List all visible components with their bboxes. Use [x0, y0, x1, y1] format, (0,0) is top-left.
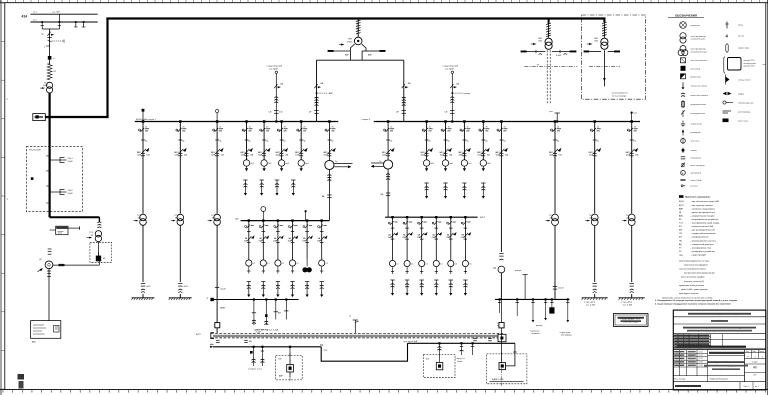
dashed box DB6 cabinet	[424, 354, 456, 377]
dash-dot fence line through T2 bay	[524, 65, 577, 67]
drawout stub S1L-2	[260, 179, 264, 181]
wire T02 to rectifier	[97, 242, 99, 256]
legend symbol contactor filled	[681, 66, 686, 71]
feeder 3R-3 wire	[421, 217, 423, 260]
terminal dot on DB1 left edge	[31, 177, 34, 180]
transformer T1R-2	[591, 214, 598, 221]
svg-text:АВР: АВР	[329, 92, 334, 95]
thick tap to transformer T2	[548, 19, 550, 24]
svg-text:25: 25	[486, 126, 488, 128]
thick loop bottom wire y=117	[39, 116, 109, 118]
section feeder wire upper	[328, 122, 330, 161]
ATS component in DB5	[499, 363, 506, 370]
feeder 1L-m3 wire	[281, 122, 283, 160]
arrow left on T3 LV lead	[587, 51, 601, 53]
feeder 1R-t3 breaker cluster	[630, 120, 633, 123]
PT stub above bus 2L	[262, 211, 264, 220]
svg-text:сущ: сущ	[324, 350, 328, 352]
svg-text:щит станц.: щит станц.	[738, 121, 749, 123]
legend symbol link	[681, 156, 686, 158]
svg-text:Лист 1: Лист 1	[744, 386, 751, 388]
feeder 1R-t3 termination marks	[630, 283, 634, 285]
svg-text:ввод: ввод	[738, 25, 743, 27]
motor M3R-4	[433, 260, 439, 266]
svg-text:25: 25	[303, 126, 305, 128]
svg-text:Принятые сокращения:: Принятые сокращения:	[685, 197, 711, 199]
feeder 2L-1 cluster	[248, 219, 250, 221]
motor M3R-3	[419, 260, 425, 266]
stub with instrument above bus 1L at x=217	[216, 113, 218, 122]
motor M2L-1	[246, 260, 252, 266]
disconnector stack above T2	[548, 23, 550, 37]
connector marks on right segment x=490	[488, 338, 492, 340]
feeder 1L-1 transformer	[140, 214, 147, 221]
tee stub above bus 4R	[524, 275, 526, 300]
svg-text:к существующей: к существующей	[443, 65, 458, 68]
labelled reserve stub at x=276	[275, 74, 277, 122]
svg-text:- трансформатор сухой защищ.: - трансформатор сухой защищ.	[691, 222, 721, 225]
svg-text:при рабочем проектировании (: при рабочем проектировании (2)	[684, 273, 715, 275]
drawout stub S1L-4	[291, 179, 295, 181]
feeder 1L-1 termination marks	[141, 283, 145, 285]
legend symbol fuse	[682, 102, 685, 107]
svg-text:Листов: Листов	[759, 351, 764, 353]
feeder 1L-3 wire into standby bus	[216, 328, 218, 334]
drawout stub S2L-3	[276, 281, 280, 283]
svg-text:авт. выключатель: авт. выключатель	[691, 60, 708, 62]
svg-text:заземление: заземление	[691, 123, 703, 125]
svg-text:проект. щит гар. пит. 0,4кВ: проект. щит гар. пит. 0,4кВ	[254, 330, 279, 332]
abbreviation list title	[679, 195, 684, 198]
legend2 symbol circle-dash	[723, 101, 726, 104]
feeder 1L-3 breaker cluster	[216, 120, 219, 123]
svg-text:нумерация ячеек условная: нумерация ячеек условная	[679, 285, 704, 287]
svg-text:ВА57: ВА57	[626, 151, 630, 154]
svg-text:ЭО: ЭО	[753, 374, 756, 376]
svg-text:- выпрямительное устройство: - выпрямительное устройство	[691, 218, 720, 221]
svg-text:25: 25	[332, 126, 334, 128]
svg-text:5,5: 5,5	[396, 264, 399, 266]
motor M2L-4	[289, 260, 295, 266]
left end marks of existing bus	[210, 343, 214, 345]
cable arrow below motor M1L-2	[263, 166, 265, 168]
svg-text:25: 25	[284, 126, 286, 128]
diesel generator G1	[45, 261, 53, 269]
wire from G1 to rectifier DB2	[53, 264, 100, 266]
svg-text:Пр: Пр	[284, 141, 286, 143]
current transformer on 414 feeder	[48, 56, 52, 60]
svg-text:шина 0,4кВ: шина 0,4кВ	[691, 180, 703, 182]
svg-text:Пр: Пр	[331, 141, 333, 143]
svg-text:Пр: Пр	[248, 141, 250, 143]
standby bus upper dashed edge	[211, 332, 503, 334]
feeder 1R-m3 breaker cluster	[463, 120, 466, 123]
svg-text:1000: 1000	[43, 85, 49, 87]
feeder 1R-5 wire to bus 4R	[500, 273, 502, 300]
bus 3L low bus	[211, 299, 298, 301]
tick marks on DB1 trunk	[46, 155, 49, 157]
feeder 1R-5 wire	[500, 122, 502, 253]
cable winding zigzag on 414 feeder	[47, 64, 52, 80]
svg-text:- дизель-генераторная уст.: - дизель-генераторная уст.	[691, 212, 716, 214]
feeder 1L-m1 wire	[246, 122, 248, 160]
svg-text:трансформатор: трансформатор	[691, 35, 707, 38]
motor M1L-4	[298, 160, 304, 166]
T1 loop left leg wire	[316, 60, 318, 121]
drawout stub S1R-3	[462, 182, 466, 184]
motor on feeder 1R-5	[498, 266, 505, 273]
svg-text:силовой 2-обм.: силовой 2-обм.	[691, 38, 706, 41]
drawout stub S1L-3	[275, 179, 279, 181]
svg-text:ЩСН: ЩСН	[679, 201, 684, 203]
tick marks below G1	[48, 269, 50, 279]
legend2 symbol brace	[726, 44, 727, 53]
svg-text:Пр: Пр	[182, 141, 184, 143]
svg-text:Стадия: Стадия	[752, 361, 758, 363]
svg-text:Пр: Пр	[557, 141, 559, 143]
motor M1R-2	[442, 160, 448, 166]
component in DB6	[436, 363, 443, 370]
feeder 3L-3 wire	[275, 298, 277, 300]
bus 1L main left bus	[135, 121, 338, 123]
feeder 1R-m1 breaker cluster	[425, 120, 428, 123]
svg-text:перемычка: перемычка	[691, 158, 703, 160]
section feeder 1L-sv cluster	[328, 120, 331, 123]
svg-text:5,5: 5,5	[469, 264, 472, 266]
feeder 1R-m2 wire	[445, 122, 447, 160]
standby bus left end bracket	[211, 333, 214, 339]
svg-text:трехобмоточный: трехобмоточный	[691, 50, 708, 53]
svg-text:ТСЗ: ТСЗ	[549, 215, 554, 217]
feeder 1L-3 wire	[216, 122, 218, 214]
legend2 symbol tick	[726, 22, 728, 29]
feeder 1L-m4 wire	[300, 122, 302, 160]
svg-text:устанавливается: устанавливается	[612, 93, 628, 95]
feeder 2L-1 wire	[248, 221, 250, 260]
svg-text:12.12: 12.12	[699, 358, 703, 360]
svg-text:с.ш. 6кВ: с.ш. 6кВ	[52, 12, 60, 14]
svg-text:3. Существующее оборудование п: 3. Существующее оборудование показано то…	[655, 303, 731, 306]
feeder 1R-t2 wire lower	[594, 226, 596, 282]
dashed box DB2 around rectifier	[90, 242, 112, 262]
motor M3R-2	[404, 260, 410, 266]
svg-text:рубильник: рубильник	[691, 76, 701, 78]
transformer T01 two-winding	[47, 82, 53, 88]
winding symbol W2 in DB1	[50, 191, 60, 193]
drop 4R-6 wire	[567, 298, 569, 300]
svg-text:25: 25	[448, 126, 450, 128]
feeder 1L-m2 breaker cluster	[263, 120, 266, 123]
svg-text:ВА57: ВА57	[174, 151, 178, 154]
transformer T3 circles	[601, 38, 608, 45]
drawing name smudges	[707, 361, 745, 363]
svg-text:АВВГ: АВВГ	[220, 307, 226, 310]
feeder 1L-3 wire to low bus	[216, 225, 218, 322]
feeder 3L-4 wire	[285, 298, 287, 300]
svg-text:- трансформатор тока: - трансформатор тока	[691, 246, 712, 249]
svg-text:0,4кВ: 0,4кВ	[68, 193, 74, 195]
section feeder 1R wire lower	[387, 169, 389, 217]
bus 2L distribution bus	[241, 220, 330, 222]
drawout stub S1R-1	[424, 182, 428, 184]
drop E1 below existing bus	[253, 347, 255, 358]
legend2 symbol cabinet box	[724, 57, 725, 74]
svg-text:- щит распределительный: - щит распределительный	[691, 229, 715, 232]
svg-text:к существующей: к существующей	[267, 65, 282, 68]
drawout marks on aux transformer lead	[97, 222, 101, 223]
svg-text:ТСЗ: ТСЗ	[626, 215, 631, 217]
thick wire through DB1	[48, 146, 50, 217]
legend symbol down arrow	[682, 82, 684, 87]
svg-text:5,5: 5,5	[455, 264, 458, 266]
transformer T2 circles	[545, 38, 552, 45]
svg-text:ВА57: ВА57	[458, 151, 462, 154]
svg-text:ЩР-2: ЩР-2	[480, 217, 486, 219]
legend2 symbol double line	[723, 110, 732, 112]
cable arrow below motor M1L-1	[246, 166, 248, 168]
thick tee wire y=217 to aux transformer	[50, 216, 100, 218]
dashed box DB4 ATS cabinet	[276, 356, 303, 380]
legend symbol breaker box	[681, 58, 686, 63]
svg-text:кабельная линия: кабельная линия	[691, 85, 707, 87]
tap lines left of instrument 1R	[371, 162, 384, 164]
legend symbol transformer 3w	[680, 46, 686, 52]
relay box B2	[56, 226, 68, 235]
svg-text:разъем: разъем	[691, 186, 699, 188]
drawout stub S3R-2	[405, 279, 409, 281]
svg-text:сущ: сущ	[679, 254, 683, 256]
svg-text:12.12: 12.12	[699, 365, 703, 367]
svg-text:осв. 0,4кВ: осв. 0,4кВ	[586, 304, 596, 306]
svg-text:25: 25	[249, 126, 251, 128]
svg-text:- распределит. устройство: - распределит. устройство	[691, 250, 716, 253]
feeder wire from 414 down to station transformer	[49, 29, 51, 64]
feeder 1R-t1 wire upper	[554, 122, 556, 214]
feeder 1L-m2 wire	[263, 122, 265, 160]
legend2 symbol filled block	[723, 119, 729, 123]
svg-text:муфта: муфта	[738, 93, 745, 96]
svg-text:к щиту осв.: к щиту осв.	[530, 331, 540, 333]
svg-text:25: 25	[183, 126, 185, 128]
feeder 1L-m4 breaker cluster	[300, 120, 303, 123]
svg-text:тр-р тока: тр-р тока	[691, 140, 701, 142]
section feeder wire lower	[328, 170, 330, 221]
drop E2 below existing bus	[261, 347, 263, 366]
bus 414-A (upper)	[31, 13, 98, 15]
wire below T3 with arrow	[603, 50, 605, 86]
wire G1 down to battery box	[48, 279, 50, 321]
svg-text:сек. ЩСН: сек. ЩСН	[269, 68, 278, 70]
title block header smudge row2	[711, 320, 728, 322]
svg-text:5,5: 5,5	[326, 263, 329, 265]
svg-text:к сущ. щиту: к сущ. щиту	[560, 332, 570, 334]
feeder 2L-2 wire	[262, 221, 264, 260]
feeder 1L-2 wire lower	[179, 225, 181, 282]
feeder 1R-5 breaker cluster	[500, 120, 503, 123]
motor M1R-1	[423, 160, 429, 166]
feeder 1R-t3 wire lower	[631, 226, 633, 282]
drawout stub S3R-1	[390, 279, 394, 281]
ground of feeder 1R-t2	[594, 294, 596, 298]
svg-text:25: 25	[467, 126, 469, 128]
drawout stub S3R-4	[434, 279, 438, 281]
drawout stub S1R-2	[443, 182, 447, 184]
svg-text:сек. ЩСН: сек. ЩСН	[445, 68, 454, 70]
cable arrow below motor M1R-1	[426, 166, 428, 168]
svg-text:- секционный выключатель: - секционный выключатель	[691, 232, 716, 235]
feeder 3R-4 cluster	[435, 216, 437, 218]
title block staff rows	[673, 352, 707, 354]
svg-text:резерв: резерв	[536, 325, 542, 327]
svg-text:ТСЗ: ТСЗ	[589, 215, 594, 217]
connector marks on right segment x=475	[473, 338, 477, 340]
stub with PT above bus 1L at x=143	[142, 111, 144, 122]
feeder 1L-m3 breaker cluster	[280, 120, 283, 123]
title block header smudge row1	[688, 313, 751, 315]
svg-text:резерв: резерв	[464, 93, 470, 95]
svg-text:Пр: Пр	[634, 141, 636, 143]
svg-text:25: 25	[145, 126, 147, 128]
transformer T1R-1	[552, 214, 559, 221]
loop wire from existing bus into ATS	[506, 343, 515, 366]
motor M3R-6	[462, 260, 468, 266]
reserve stub with flag at x=557	[556, 113, 558, 122]
svg-text:места установки шкафов: места установки шкафов	[681, 276, 704, 279]
svg-text:- асинхронный двигатель: - асинхронный двигатель	[691, 243, 714, 246]
thick loop top wire y=18.5	[106, 17, 605, 19]
svg-text:выкатной элемент: выкатной элемент	[691, 94, 709, 97]
future dashed cables below T2	[546, 50, 548, 103]
drawout stub S2L-5	[305, 281, 309, 283]
svg-text:- существующий: - существующий	[691, 253, 706, 256]
thick tap to transformer T3	[603, 19, 605, 23]
svg-text:ВА57: ВА57	[439, 151, 443, 154]
feeder 2L-2 cluster	[262, 219, 264, 221]
svg-text:кабели прокладываются по сущ.: кабели прокладываются по сущ.	[679, 261, 710, 263]
existing bus right segment	[408, 342, 515, 344]
feeder 1R-t3 wire upper	[631, 122, 633, 214]
svg-text:осв. 0,4кВ: осв. 0,4кВ	[623, 304, 633, 306]
drawout stub S2L-4	[290, 281, 294, 283]
drop E5 short stub	[472, 343, 474, 355]
feeder 3R-5 wire	[450, 217, 452, 260]
feeder 3L-2 wire	[265, 298, 267, 300]
cable arrow below motor M1R-2	[445, 166, 447, 168]
wire from relay box B2 to test point	[68, 227, 79, 229]
cable arrow below motor M1R-3	[463, 166, 465, 168]
wire drop from bus 414-B at x=59	[58, 14, 60, 29]
svg-text:контактор: контактор	[691, 68, 701, 70]
dashed box DB5 main ATS	[487, 354, 527, 384]
connector marks between standby and existing bus x=246	[244, 339, 248, 341]
dashed tap to metering	[52, 40, 65, 42]
svg-text:блока: блока	[457, 361, 463, 363]
feeder 1R-t1 breaker cluster	[554, 120, 557, 123]
svg-text:Пр: Пр	[429, 141, 431, 143]
svg-text:группа прис.: группа прис.	[738, 48, 750, 50]
feeder 3R-2 cluster	[406, 216, 408, 218]
legend symbol busbar	[680, 179, 685, 181]
svg-text:25: 25	[429, 126, 431, 128]
dash-dot fence line in T3 bay	[589, 65, 620, 67]
svg-text:шкаф КТП с: шкаф КТП с	[744, 59, 756, 62]
stub on bus 414-B at x=76	[75, 22, 77, 27]
bottom row smudge	[675, 385, 701, 387]
svg-text:сечения кабелей уточняются: сечения кабелей уточняются	[679, 268, 706, 271]
feeder 1L-1 wire lower	[142, 225, 144, 282]
marks on feeder 1R-5	[499, 253, 503, 255]
svg-text:двигатель: двигатель	[691, 25, 701, 27]
svg-text:4x120: 4x120	[558, 288, 564, 290]
svg-text:зажим: зажим	[691, 150, 698, 152]
transfer switch box B4 on feeder 1L-3	[215, 323, 220, 328]
svg-text:ВА57: ВА57	[495, 151, 499, 154]
legend symbol switch fuse	[681, 163, 685, 167]
svg-text:2500: 2500	[347, 41, 353, 43]
feeder 1R-t1 wire to bus 4R	[554, 226, 556, 300]
svg-text:АВР: АВР	[368, 54, 373, 57]
svg-text:АВР: АВР	[279, 375, 284, 378]
thick feeder trunk below T01	[48, 93, 50, 146]
title block litera cells	[745, 352, 766, 354]
svg-text:Лит.: Лит.	[746, 351, 750, 353]
feeder 3R-1 wire	[392, 217, 394, 260]
svg-text:12.12: 12.12	[699, 355, 703, 357]
transformer T1R-3	[628, 214, 635, 221]
breaker on T1 right leg	[402, 84, 405, 88]
transfer switch box on riser x=501	[499, 323, 504, 328]
svg-text:венткамеры: венткамеры	[561, 335, 572, 337]
svg-text:- шкаф управления: - шкаф управления	[691, 236, 709, 239]
feeder 2L-6 wire	[321, 221, 323, 260]
transformer T02 two-winding	[95, 231, 101, 237]
ground of feeder 1R-t3	[631, 294, 633, 298]
feeder 3R-6 cluster	[464, 216, 466, 218]
transformer T1 split winding wires	[350, 44, 354, 60]
bus 4R low bus right	[495, 298, 569, 300]
svg-text:тт: тт	[53, 58, 55, 60]
svg-text:- аккумуляторная батарея: - аккумуляторная батарея	[691, 215, 715, 217]
existing bus left segment	[213, 346, 321, 348]
svg-text:Пр: Пр	[447, 141, 449, 143]
drop 4R-4 wire	[545, 298, 547, 300]
section feeder 1R-sv cluster	[387, 120, 390, 123]
cable arrow below motor M1R-4	[482, 166, 484, 168]
svg-text:25: 25	[390, 126, 392, 128]
arrow left on T1 LV lead	[331, 50, 350, 52]
title block header row 1	[673, 316, 766, 318]
title block outer frame	[673, 310, 766, 390]
svg-text:Пр: Пр	[390, 141, 392, 143]
feeder 1R-t2 wire upper	[594, 122, 596, 214]
svg-text:25: 25	[557, 126, 559, 128]
feeder 2L-5 cluster	[306, 219, 308, 221]
legend2 symbol thick arrow	[726, 77, 730, 83]
svg-text:ВА57: ВА57	[276, 151, 280, 154]
svg-text:разрядник: разрядник	[691, 132, 701, 134]
arrow left on T2 LV lead	[524, 51, 545, 53]
svg-text:12.12: 12.12	[699, 362, 703, 364]
doc code smudge	[709, 352, 744, 354]
riser wire bus4R to ATS	[500, 299, 502, 322]
double-bordered note box	[614, 314, 649, 327]
svg-text:ТСЗ: ТСЗ	[137, 215, 142, 217]
svg-text:5,5: 5,5	[296, 263, 299, 265]
revision table grid	[673, 336, 710, 338]
svg-text:в: в	[44, 47, 45, 49]
svg-text:АВР: АВР	[345, 54, 350, 57]
feeder 1R-m1 wire	[426, 122, 428, 160]
